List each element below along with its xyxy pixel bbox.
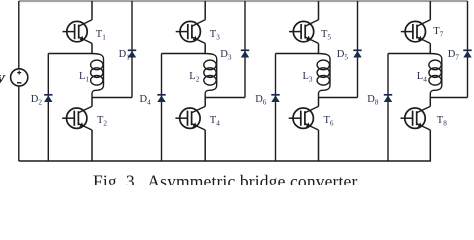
diode D6 [271,95,279,102]
wire: node B horizontal [205,97,245,99]
diode D2 [44,95,52,102]
wire: node B horizontal [92,97,132,99]
transistor T3 [176,1,206,54]
inductor L2 [204,54,217,98]
inductor L1 [91,54,104,98]
wire: node A horizontal [276,53,319,55]
wire: diode D7 branch [467,1,469,98]
transistor T6 [289,98,319,162]
wire: left freewheel branch [387,54,389,162]
transistor T7 [401,1,431,54]
wire: node B horizontal [319,97,358,99]
diode D7 [463,50,471,57]
wire: diode D1 branch [131,1,133,98]
voltage source V [11,69,28,86]
wire: left freewheel branch [47,54,49,162]
wire: node B horizontal [430,97,467,99]
diode D8 [384,95,392,102]
wire: node A horizontal [388,53,430,55]
transistor T8 [401,98,431,162]
inductor L3 [317,54,330,98]
diode D5 [353,50,361,57]
wire: source bottom lead [18,86,20,161]
diode D4 [157,95,165,102]
transistor T4 [175,98,205,162]
wire: left freewheel branch [161,54,163,162]
diode D1 [128,50,136,57]
diode D3 [241,50,249,57]
bottom supply rail [19,160,431,162]
wire: node A horizontal [162,53,206,55]
inductor L4 [429,54,442,98]
transistor T1 [63,1,93,54]
transistor T2 [62,98,92,162]
wire: left freewheel branch [275,54,277,162]
top supply rail [19,0,468,2]
transistor T5 [289,1,319,54]
svg-text:Fig. 3. Asymmetric bridge con: Fig. 3. Asymmetric bridge converter [93,172,357,185]
wire: node A horizontal [48,53,92,55]
wire: source top lead [18,1,20,69]
wire: diode D3 branch [244,1,246,98]
wire: diode D5 branch [357,1,359,98]
